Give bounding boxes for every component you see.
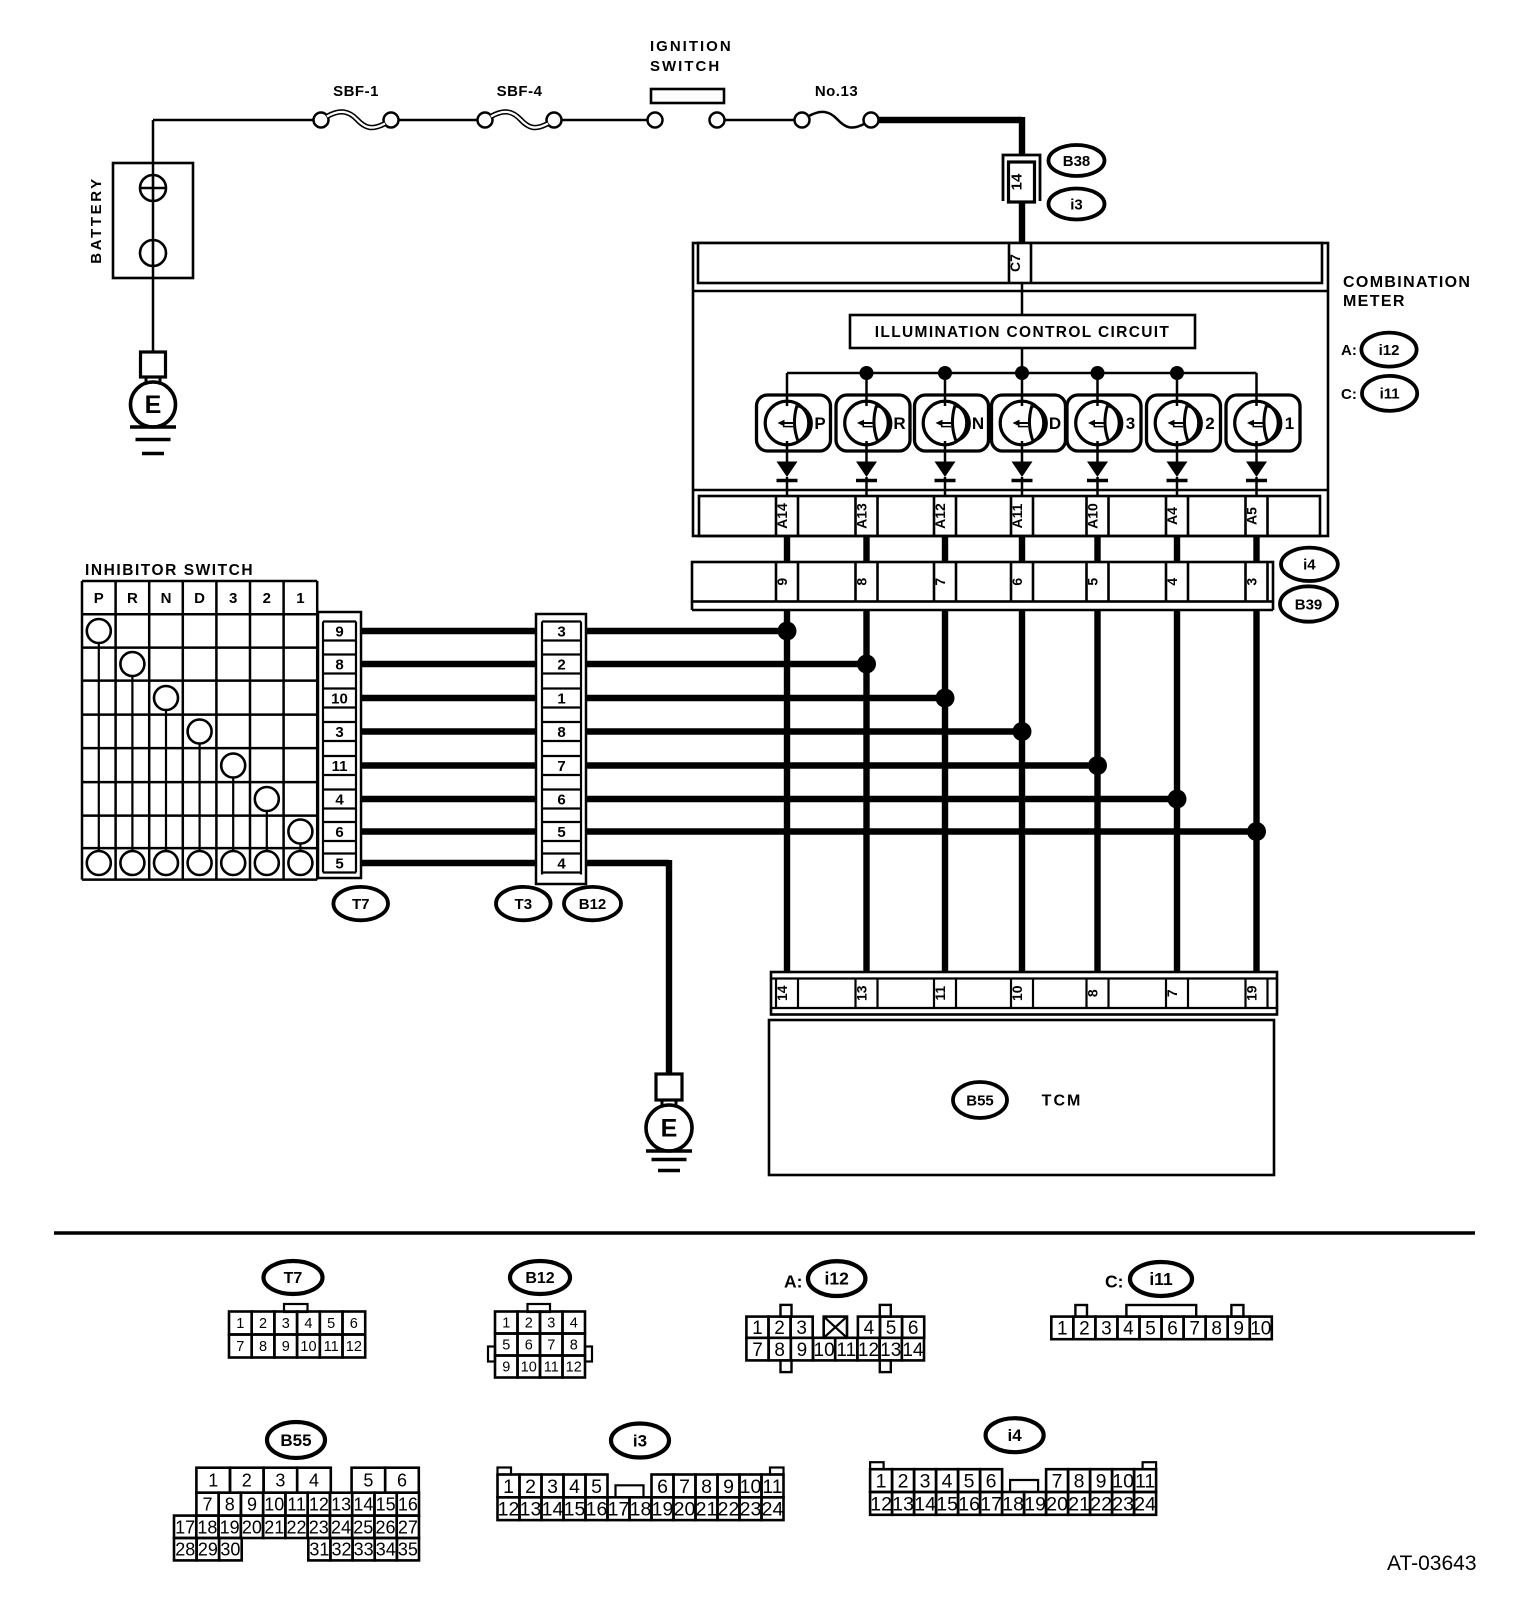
wire lamp 3 to diode [1096,441,1099,463]
connector pinout A: i12 [746,1261,924,1372]
svg-text:2: 2 [242,1471,252,1491]
svg-text:C7: C7 [1007,254,1023,272]
ground E (B12) [646,1074,692,1171]
svg-text:19: 19 [652,1499,674,1521]
svg-text:2: 2 [774,1318,785,1339]
wire C7 to illumination control circuit [1021,283,1024,315]
wire bus to lamp R [865,373,868,406]
svg-text:19: 19 [1244,985,1260,1001]
pin T7-6 [323,822,356,841]
svg-text:6: 6 [986,1471,997,1493]
svg-text:9: 9 [774,578,790,586]
svg-text:5: 5 [502,1338,510,1354]
node junction 2 [857,655,876,674]
svg-text:15: 15 [936,1493,958,1515]
diode lamp 2 [1167,462,1188,481]
svg-text:METER: METER [1343,293,1406,310]
wire meter to harness connector (thick) [1019,536,1025,562]
wire [561,119,648,122]
pin T7-5 [323,854,356,873]
node junction 3 [936,689,955,708]
svg-text:9: 9 [1096,1471,1107,1493]
wire lamp R to diode [865,441,868,463]
connector label T7 [333,887,388,920]
svg-text:6: 6 [1167,1319,1178,1340]
svg-text:E: E [145,391,162,419]
svg-text:N: N [972,414,984,433]
svg-text:3: 3 [229,590,237,607]
wire diode to connector [1255,477,1258,496]
diode lamp N [935,462,956,481]
svg-text:17: 17 [608,1499,630,1521]
connector strip TCM (B55) [771,972,1277,1015]
wire meter to TCM (thick) [863,610,869,972]
svg-text:6: 6 [335,824,343,841]
svg-text:14: 14 [914,1493,936,1515]
svg-text:10: 10 [740,1476,762,1498]
connector strip i4/B39 row [692,562,1273,610]
svg-text:INHIBITOR SWITCH: INHIBITOR SWITCH [85,562,254,579]
svg-text:AT-03643: AT-03643 [1387,1552,1477,1575]
diode lamp 3 [1087,462,1108,481]
svg-text:25: 25 [353,1517,373,1537]
svg-text:32: 32 [331,1540,351,1560]
svg-text:35: 35 [398,1540,418,1560]
svg-text:3: 3 [920,1471,931,1493]
wire lamp bus [787,372,1257,375]
svg-text:3: 3 [557,624,565,641]
pin B12-1 [542,689,581,708]
connector label i3 [1049,189,1105,220]
svg-text:4: 4 [557,856,566,873]
svg-text:1: 1 [1285,414,1294,433]
node junction 6 [1168,790,1187,809]
svg-text:i12: i12 [825,1269,850,1289]
svg-text:A14: A14 [774,503,790,529]
svg-text:3: 3 [547,1316,555,1332]
connector label A: i12 [1341,333,1417,367]
connector strip C7 row [693,243,1328,291]
pin C7 [1007,243,1031,283]
wire bus to lamp D [1021,373,1024,406]
svg-text:7: 7 [557,758,565,775]
svg-text:6: 6 [350,1316,358,1332]
svg-text:8: 8 [1085,989,1101,997]
svg-text:10: 10 [1112,1471,1134,1493]
svg-text:T3: T3 [515,896,533,913]
node junction 1 [778,622,797,641]
wire bus to lamp 2 [1176,373,1179,406]
svg-text:7: 7 [679,1476,690,1498]
pin B12-4 [542,854,581,873]
connector label i4 [1281,548,1338,581]
svg-text:A5: A5 [1244,507,1260,525]
pin T7-8 [323,655,356,674]
svg-text:R: R [127,590,138,607]
svg-text:A4: A4 [1164,507,1180,525]
pin TCM-14 [774,979,798,1009]
pin T7-3 [323,722,356,741]
wire [398,119,478,122]
wire meter to harness connector (thick) [863,536,869,562]
fuse SBF-1 [314,83,399,128]
pin T7-11 [323,756,356,775]
pin 6 (B39/i4) [1009,562,1033,602]
svg-text:10: 10 [814,1340,835,1361]
svg-text:5: 5 [557,824,565,841]
pin 3 (B39/i4) [1244,562,1268,602]
wire B12-3 to TCM column (thick) [586,628,790,634]
pin B12-3 [542,622,581,641]
node junction bus/lamp 1 [860,366,874,380]
svg-text:2: 2 [263,590,271,607]
diode lamp R [856,462,877,481]
svg-text:24: 24 [1134,1493,1156,1515]
svg-text:5: 5 [1145,1319,1156,1340]
svg-text:6: 6 [908,1318,919,1339]
wire T7 to T3 (thick) [361,695,536,701]
svg-text:A:: A: [784,1272,802,1292]
wire T7 to T3 (thick) [361,661,536,667]
svg-text:i4: i4 [1303,557,1316,574]
wire bus to lamp N [944,373,947,406]
pin B12-8 [542,722,581,741]
svg-text:22: 22 [1090,1493,1112,1515]
inhibitor contact 1 [288,820,312,876]
svg-text:T7: T7 [284,1270,303,1287]
svg-text:3: 3 [796,1318,807,1339]
svg-text:4: 4 [942,1471,953,1493]
svg-text:2: 2 [525,1476,536,1498]
svg-text:24: 24 [762,1499,784,1521]
node junction bus/lamp 5 [1170,366,1184,380]
connector label B12 [564,887,621,920]
pin B12-2 [542,655,581,674]
wire meter to TCM (thick) [1094,610,1100,972]
svg-text:E: E [661,1115,678,1143]
svg-text:9: 9 [282,1339,290,1355]
lamp D [992,395,1066,451]
svg-text:i11: i11 [1149,1269,1173,1289]
svg-text:5: 5 [335,856,343,873]
svg-text:5: 5 [964,1471,975,1493]
svg-text:23: 23 [740,1499,762,1521]
wire No.13 to connector 14 (thick) [878,117,1022,155]
wire illumination control circuit to lamp bus [1021,348,1024,373]
pin TCM-8 [1085,979,1109,1009]
inhibitor contact R [120,652,144,875]
inhibitor contact 3 [221,754,245,876]
svg-text:19: 19 [220,1517,240,1537]
pin A11 [1009,496,1033,536]
connector pinout C: i11 [1051,1262,1272,1340]
svg-text:8: 8 [259,1339,267,1355]
svg-text:10: 10 [521,1360,537,1376]
svg-text:14: 14 [542,1499,564,1521]
pin 4 (B39/i4) [1164,562,1188,602]
label COMBINATION METER [1343,274,1471,310]
svg-text:12: 12 [870,1493,892,1515]
node junction bus/lamp 3 [1015,366,1029,380]
lamp P [757,395,831,451]
svg-text:ILLUMINATION CONTROL CIRCUIT: ILLUMINATION CONTROL CIRCUIT [875,324,1171,341]
svg-text:26: 26 [376,1517,396,1537]
svg-text:R: R [893,414,905,433]
svg-text:2: 2 [1205,414,1214,433]
svg-text:3: 3 [547,1476,558,1498]
svg-text:4: 4 [335,792,344,809]
wire T7 to T3 (thick) [361,762,536,768]
svg-text:14: 14 [902,1340,924,1361]
svg-text:1: 1 [557,691,565,708]
fuse SBF-4 [478,83,562,128]
svg-text:1: 1 [296,590,304,607]
connector strip T3/B12 [536,614,586,884]
svg-text:11: 11 [332,758,348,775]
lamp R [836,395,910,451]
wire diode to connector [1096,477,1099,496]
combination meter box [693,243,1328,536]
wire battery to fuses [153,120,314,163]
svg-text:17: 17 [980,1493,1002,1515]
wire diode to connector [1021,477,1024,496]
svg-text:A12: A12 [932,503,948,529]
wire T7 to T3 (thick) [361,728,536,734]
node junction 7 [1247,822,1266,841]
svg-text:21: 21 [1068,1493,1090,1515]
svg-text:3: 3 [275,1471,285,1491]
wire B12-4 to ground (thick) [586,860,669,1074]
node junction bus/lamp 4 [1091,366,1105,380]
svg-text:11: 11 [932,986,948,1001]
svg-text:B12: B12 [579,896,607,913]
wire lamp D to diode [1021,441,1024,463]
svg-text:12: 12 [498,1499,520,1521]
svg-text:5: 5 [363,1471,373,1491]
svg-text:4: 4 [1164,578,1180,586]
TCM box [769,1020,1274,1175]
pin TCM-11 [932,979,956,1009]
wire B12-6 to TCM column (thick) [586,796,1180,802]
lamp N [915,395,989,451]
svg-text:6: 6 [1009,578,1025,586]
svg-text:20: 20 [1046,1493,1068,1515]
inhibitor contact 2 [255,787,279,875]
svg-text:3: 3 [1244,578,1260,586]
lamp 1 [1226,395,1300,451]
wire [725,119,796,122]
svg-text:B55: B55 [966,1092,994,1109]
svg-text:5: 5 [1085,578,1101,586]
svg-text:7: 7 [1164,989,1180,997]
svg-text:4: 4 [1123,1319,1134,1340]
wire meter to TCM (thick) [1174,610,1180,972]
svg-text:1: 1 [1057,1319,1068,1340]
pin A13 [854,496,878,536]
svg-text:2: 2 [898,1471,909,1493]
connector strip T7 [318,612,361,878]
svg-text:11: 11 [836,1340,856,1361]
wire meter to TCM (thick) [1019,610,1025,972]
svg-text:9: 9 [1233,1319,1244,1340]
svg-text:A10: A10 [1085,503,1101,529]
svg-text:29: 29 [198,1540,218,1560]
svg-text:28: 28 [175,1540,195,1560]
svg-text:11: 11 [1135,1471,1155,1493]
pin A5 [1244,496,1268,536]
wire meter to TCM (thick) [942,610,948,972]
svg-text:8: 8 [854,578,870,586]
pin 7 (B39/i4) [932,562,956,602]
wire diode to connector [1176,477,1179,496]
svg-text:21: 21 [696,1499,718,1521]
svg-text:8: 8 [225,1495,235,1515]
svg-text:IGNITION: IGNITION [650,38,733,55]
pin A10 [1085,496,1109,536]
svg-text:10: 10 [300,1339,316,1355]
svg-text:10: 10 [331,691,348,708]
svg-text:7: 7 [203,1495,213,1515]
node junction bus/lamp 2 [938,366,952,380]
connector pinout B55 [174,1422,419,1560]
svg-text:N: N [161,590,172,607]
svg-text:11: 11 [324,1339,339,1355]
wire B12-8 to TCM column (thick) [586,728,1025,734]
svg-text:22: 22 [286,1517,306,1537]
svg-text:12: 12 [858,1340,879,1361]
wire T7 to T3 (thick) [361,860,536,866]
svg-text:8: 8 [1211,1319,1222,1340]
svg-text:3: 3 [282,1316,290,1332]
wire meter to harness connector (thick) [1094,536,1100,562]
svg-text:P: P [814,414,825,433]
svg-text:T7: T7 [352,896,370,913]
svg-text:2: 2 [1079,1319,1090,1340]
connector pinout B12 [488,1261,592,1378]
svg-text:4: 4 [570,1316,578,1332]
svg-text:7: 7 [932,578,948,586]
svg-text:2: 2 [525,1316,533,1332]
svg-text:9: 9 [247,1495,257,1515]
svg-text:7: 7 [1052,1471,1063,1493]
wire B12-2 to TCM column (thick) [586,661,870,667]
svg-text:2: 2 [557,657,565,674]
pin TCM-19 [1244,979,1268,1009]
svg-text:10: 10 [1009,985,1025,1001]
wire lamp 1 to diode [1255,441,1258,463]
svg-text:14: 14 [774,985,790,1001]
ignition switch [648,38,733,128]
svg-text:SBF-4: SBF-4 [497,83,543,100]
svg-text:1: 1 [503,1476,514,1498]
svg-text:5: 5 [327,1316,335,1332]
wire meter to harness connector (thick) [942,536,948,562]
svg-text:10: 10 [264,1495,284,1515]
svg-text:7: 7 [752,1340,763,1361]
wire T7 to T3 (thick) [361,828,536,834]
ground E (battery) [130,352,176,454]
svg-text:1: 1 [236,1316,244,1332]
svg-text:7: 7 [1189,1319,1200,1340]
svg-text:3: 3 [335,724,343,741]
svg-text:19: 19 [1024,1493,1046,1515]
pin 8 (B39/i4) [854,562,878,602]
svg-text:A13: A13 [854,503,870,529]
svg-text:8: 8 [701,1476,712,1498]
svg-text:18: 18 [1002,1493,1024,1515]
connector 14 [1003,155,1040,202]
pin TCM-7 [1164,979,1188,1009]
svg-text:1: 1 [752,1318,763,1339]
svg-text:16: 16 [398,1495,418,1515]
svg-text:13: 13 [892,1493,914,1515]
svg-text:9: 9 [723,1476,734,1498]
lamp 2 [1147,395,1221,451]
connector pinout i4 [870,1418,1156,1515]
svg-text:3: 3 [1101,1319,1112,1340]
wire B12-7 to TCM column (thick) [586,762,1101,768]
svg-text:C:: C: [1105,1272,1123,1292]
svg-text:1: 1 [502,1316,510,1332]
svg-text:i3: i3 [633,1431,647,1450]
wire B12-1 to TCM column (thick) [586,695,948,701]
wire diode to connector [944,477,947,496]
svg-text:D: D [1049,414,1061,433]
svg-text:9: 9 [502,1360,510,1376]
connector strip A row (meter side) [693,490,1328,536]
svg-text:18: 18 [197,1517,217,1537]
svg-text:4: 4 [864,1318,875,1339]
svg-text:10: 10 [1250,1319,1271,1340]
svg-text:5: 5 [886,1318,897,1339]
svg-text:15: 15 [564,1499,586,1521]
lamp 3 [1067,395,1141,451]
svg-text:14: 14 [353,1495,373,1515]
svg-text:SWITCH: SWITCH [650,58,721,75]
svg-text:B39: B39 [1295,596,1323,613]
wire lamp 2 to diode [1176,441,1179,463]
svg-text:D: D [194,590,205,607]
wire lamp N to diode [944,441,947,463]
svg-text:7: 7 [236,1339,244,1355]
wire meter to harness connector (thick) [1174,536,1180,562]
svg-text:1: 1 [208,1471,218,1491]
svg-text:13: 13 [520,1499,542,1521]
pin 9 (B39/i4) [774,562,798,602]
connector pinout T7 [229,1261,365,1358]
inhibitor switch grid [82,581,317,880]
svg-text:4: 4 [304,1316,312,1332]
svg-text:COMBINATION: COMBINATION [1343,274,1471,291]
svg-text:13: 13 [854,985,870,1001]
connector label B39 [1280,586,1337,621]
pin A4 [1164,496,1188,536]
inhibitor contact N [154,686,178,875]
wire diode to connector [786,477,789,496]
svg-text:12: 12 [309,1495,329,1515]
fuse No.13 [795,83,879,128]
svg-text:8: 8 [570,1338,578,1354]
svg-text:22: 22 [718,1499,740,1521]
wire T7 to T3 (thick) [361,796,536,802]
svg-text:13: 13 [331,1495,351,1515]
svg-text:21: 21 [264,1517,284,1537]
wire connector 14 to combination meter (thick) [1019,202,1025,244]
svg-text:18: 18 [630,1499,652,1521]
svg-text:20: 20 [242,1517,262,1537]
diode lamp P [777,462,798,481]
svg-text:6: 6 [557,792,565,809]
